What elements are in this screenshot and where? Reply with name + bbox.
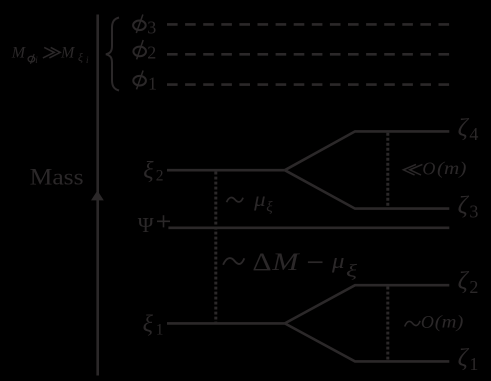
svg-text:ξ: ξ <box>78 51 83 64</box>
level xi2 line <box>167 169 285 172</box>
xi1 fan lower to zeta1 <box>285 323 450 361</box>
xi2 fan lower to zeta3 <box>285 170 450 208</box>
svg-text:Mass: Mass <box>30 165 84 191</box>
svg-text:Ψ: Ψ <box>138 213 154 237</box>
label zeta3 <box>458 192 479 221</box>
label Psi+ <box>138 213 170 237</box>
svg-text:μ: μ <box>331 248 345 273</box>
svg-text:1: 1 <box>156 322 164 339</box>
svg-text:4: 4 <box>469 124 478 144</box>
svg-text:ξ: ξ <box>346 261 357 281</box>
label M_phi >> M_xi <box>11 44 89 64</box>
svg-text:(m): (m) <box>435 312 464 332</box>
label phi1 <box>133 71 157 94</box>
label << O(m) <box>403 158 466 179</box>
label phi3 <box>133 15 156 38</box>
svg-text:1: 1 <box>148 73 157 93</box>
label zeta4 <box>458 115 479 144</box>
svg-text:O: O <box>422 158 435 178</box>
level Psi line <box>168 227 449 230</box>
svg-text:ξ: ξ <box>266 200 273 216</box>
svg-text:M: M <box>271 249 300 276</box>
right dotted line zeta4-zeta3 <box>386 133 389 208</box>
level xi1 line <box>167 322 285 325</box>
svg-text:Δ: Δ <box>252 247 271 276</box>
xi2 fan upper to zeta4 <box>285 131 450 170</box>
label zeta1 <box>458 345 479 374</box>
label ~ mu_xi <box>227 189 274 216</box>
svg-text:O: O <box>421 312 434 332</box>
svg-text:ξ: ξ <box>143 158 154 184</box>
svg-text:μ: μ <box>253 189 266 211</box>
svg-text:2: 2 <box>156 167 164 184</box>
svg-text:1: 1 <box>469 354 478 374</box>
brace <box>106 18 119 91</box>
svg-text:M: M <box>60 44 76 61</box>
svg-text:3: 3 <box>469 201 478 221</box>
right dotted line zeta2-zeta1 <box>386 287 389 361</box>
axis arrowhead <box>91 191 104 201</box>
label xi1 <box>143 312 164 339</box>
label zeta2 <box>458 268 479 297</box>
svg-text:M: M <box>11 45 27 62</box>
xi1 fan upper to zeta2 <box>285 285 450 323</box>
label xi2 <box>143 158 163 185</box>
dashed line phi1 <box>167 83 449 86</box>
mass axis <box>96 15 99 376</box>
label ~ O(m) <box>405 312 464 332</box>
label ~ DeltaM - mu_xi <box>223 247 357 280</box>
dashed line phi2 <box>167 53 449 56</box>
svg-text:ξ: ξ <box>143 312 154 338</box>
left dotted splitting line <box>214 172 217 323</box>
svg-text:(m): (m) <box>437 158 467 178</box>
label phi2 <box>133 40 156 63</box>
dashed line phi3 <box>167 23 449 26</box>
svg-text:2: 2 <box>469 277 478 297</box>
svg-text:3: 3 <box>147 18 156 38</box>
svg-text:2: 2 <box>147 43 156 63</box>
